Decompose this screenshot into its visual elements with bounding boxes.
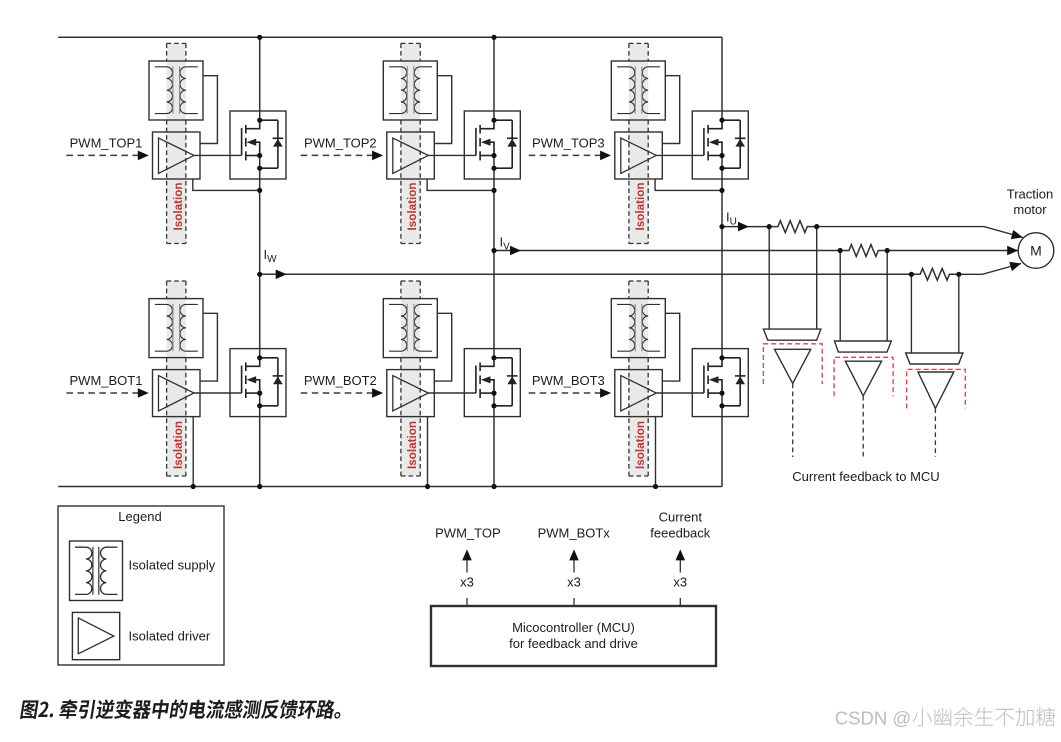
isolation barrier channel (TOP2) [401, 43, 420, 243]
wire IW to motor [959, 262, 1021, 274]
junction dots: leg 1 MOSFET top [257, 118, 262, 171]
phase current wire IW to shunt [260, 270, 912, 280]
label Isolated supply [129, 558, 216, 573]
power MOSFET switch (BOT2) [464, 349, 520, 417]
PWM input dashed arrow (TOP1) [66, 151, 148, 161]
junction dots: leg 3 MOSFET top [719, 118, 724, 171]
wire IU to motor [817, 227, 1023, 240]
label Isolation (TOP3) [634, 182, 647, 230]
svg-text:PWM_TOP3: PWM_TOP3 [532, 136, 605, 151]
isolation boundary (red dashed) around A2 [834, 357, 893, 396]
label PWM_TOP2 [304, 136, 377, 151]
label x3 (1) [460, 575, 474, 590]
wire: supply output to driver (TOP2) [434, 76, 451, 144]
wire: supply output to driver (BOT1) [200, 313, 217, 381]
sense wires into isolated amplifier A1 [769, 227, 817, 330]
junction dots: leg 1 MOSFET bottom [257, 355, 262, 408]
isolated amplifier A1 input stage (trapezoid) [763, 329, 821, 340]
wire: driver output to MOSFET gate (BOT3) [656, 392, 704, 394]
junction dots: leg 2 MOSFET top [491, 118, 496, 171]
isolated amplifier A2 input stage (trapezoid) [835, 341, 892, 352]
label PWM_BOTx (MCU) [538, 525, 611, 540]
watermark user id [913, 707, 1055, 726]
junction dots: top bus [257, 35, 497, 40]
junction dot: phase node leg 2 [491, 188, 496, 193]
label IV [500, 235, 511, 253]
label Current feedback to MCU [792, 469, 939, 484]
body diode of MOSFET (BOT3) [722, 358, 746, 406]
bottom DC bus wire [58, 486, 722, 488]
isolated supply transformer (BOT2) [383, 299, 437, 358]
isolated supply transformer (BOT3) [611, 299, 665, 358]
isolation barrier channel (BOT2) [401, 281, 420, 476]
wire: driver output to MOSFET gate (BOT1) [194, 392, 242, 394]
svg-text:Isolation: Isolation [634, 182, 647, 230]
figure caption 图2. caption text [20, 699, 343, 719]
junction dots: bottom bus [191, 484, 659, 489]
label Isolation (BOT3) [634, 421, 647, 469]
shunt resistor R2 [840, 245, 887, 257]
power MOSFET switch (BOT1) [230, 349, 286, 417]
phase current wire IV to shunt [494, 246, 840, 256]
legend isolated supply symbol [70, 541, 123, 601]
isolation barrier channel (BOT3) [629, 281, 648, 476]
label PWM_BOT3 [532, 373, 605, 388]
label IU [726, 210, 737, 228]
watermark CSDN [835, 707, 911, 728]
isolated supply transformer (TOP2) [383, 61, 437, 120]
svg-text:Micocontroller (MCU): Micocontroller (MCU) [512, 620, 635, 635]
svg-text:PWM_TOP: PWM_TOP [435, 525, 501, 540]
wire: supply output to driver (BOT3) [662, 313, 679, 381]
isolated gate driver (BOT3) [615, 370, 663, 417]
shunt resistor R1 [769, 221, 817, 233]
label Isolation (BOT1) [172, 421, 185, 469]
MCU signal arrow 1 (x3) [462, 549, 472, 606]
isolated amplifier A2 output stage (triangle) [845, 361, 881, 396]
label Isolation (TOP1) [172, 182, 185, 230]
PWM input dashed arrow (TOP2) [301, 151, 383, 161]
svg-text:M: M [1030, 243, 1042, 259]
wire: driver output to MOSFET gate (TOP1) [194, 154, 242, 156]
svg-text:PWM_BOT1: PWM_BOT1 [70, 373, 143, 388]
wire: driver return to phase node (TOP3) [655, 179, 722, 190]
wire: driver output to MOSFET gate (TOP3) [656, 154, 704, 156]
wire: driver return to negative bus (BOT3) [655, 417, 657, 487]
power MOSFET switch (TOP1) [230, 111, 286, 179]
isolation barrier channel (TOP3) [629, 43, 648, 243]
label PWM_BOT2 [304, 373, 377, 388]
body diode of MOSFET (TOP2) [494, 120, 518, 168]
label Isolation (BOT2) [406, 421, 419, 469]
label PWM_BOT1 [70, 373, 143, 388]
shunt resistor R3 [911, 268, 958, 280]
label Isolated driver [129, 629, 211, 644]
PWM input dashed arrow (TOP3) [529, 151, 611, 161]
label x3 (2) [567, 575, 581, 590]
junction dots: leg 3 MOSFET bottom [719, 355, 724, 408]
svg-text:x3: x3 [567, 575, 581, 590]
wire: supply output to driver (TOP1) [200, 76, 217, 144]
wire: driver output to MOSFET gate (TOP2) [428, 154, 476, 156]
PWM input dashed arrow (BOT1) [66, 388, 148, 398]
svg-text:Isolation: Isolation [406, 182, 419, 230]
wire: driver return to phase node (TOP2) [427, 179, 494, 190]
isolated amplifier A3 output stage (triangle) [918, 372, 954, 408]
phase leg 1 vertical wire segments [259, 37, 261, 486]
dashed output of A3 to MCU [934, 408, 936, 457]
svg-text:x3: x3 [460, 575, 474, 590]
isolation boundary (red dashed) around A1 [763, 344, 822, 384]
label IW [264, 247, 278, 265]
svg-text:CSDN @: CSDN @ [835, 707, 911, 728]
svg-text:Isolation: Isolation [172, 421, 185, 469]
body diode of MOSFET (BOT1) [260, 358, 284, 406]
legend box [58, 506, 224, 665]
svg-text:Legend: Legend [118, 509, 161, 524]
label Isolation (TOP2) [406, 182, 419, 230]
junction dots: shunt terminals [767, 224, 962, 277]
power MOSFET switch (BOT3) [692, 349, 748, 417]
junction dots: leg 2 MOSFET bottom [491, 355, 496, 408]
wire: driver return to negative bus (BOT1) [192, 417, 194, 487]
svg-text:PWM_BOTx: PWM_BOTx [538, 525, 611, 540]
wire: driver return to negative bus (BOT2) [427, 417, 429, 487]
isolated amplifier A3 input stage (trapezoid) [906, 353, 963, 364]
svg-text:Isolated driver: Isolated driver [129, 629, 211, 644]
isolated gate driver (BOT2) [387, 370, 435, 417]
isolated gate driver (TOP2) [387, 132, 435, 179]
svg-text:Isolated supply: Isolated supply [129, 558, 216, 573]
svg-text:x3: x3 [673, 575, 687, 590]
svg-text:PWM_TOP1: PWM_TOP1 [70, 136, 143, 151]
svg-text:PWM_TOP2: PWM_TOP2 [304, 136, 377, 151]
isolated gate driver (BOT1) [153, 370, 201, 417]
body diode of MOSFET (TOP3) [722, 120, 746, 168]
label PWM_TOP3 [532, 136, 605, 151]
svg-text:PWM_BOT2: PWM_BOT2 [304, 373, 377, 388]
power MOSFET switch (TOP2) [464, 111, 520, 179]
junction dot: phase node leg 1 [257, 188, 262, 193]
junction dot: phase node leg 3 [719, 188, 724, 193]
phase leg 3 vertical wire segments [721, 37, 723, 486]
label Microcontroller text [509, 620, 638, 651]
label PWM_TOP (MCU) [435, 525, 501, 540]
MCU signal arrow 2 (x3) [569, 549, 579, 606]
label Current feeedback (MCU) [650, 510, 710, 541]
svg-text:Isolation: Isolation [634, 421, 647, 469]
isolation boundary (red dashed) around A3 [907, 369, 966, 408]
dashed output of A1 to MCU [792, 384, 794, 458]
svg-text:Current: Current [659, 510, 703, 525]
phase leg 2 vertical wire segments [493, 37, 495, 486]
legend isolated driver symbol [72, 612, 119, 659]
MCU signal arrow 3 (x3) [676, 549, 686, 606]
isolated gate driver (TOP3) [615, 132, 663, 179]
junction dots: current taps [257, 224, 725, 277]
top DC bus wire [58, 36, 722, 38]
wire IV to motor [887, 246, 1018, 256]
svg-text:Isolation: Isolation [406, 421, 419, 469]
microcontroller MCU box [431, 606, 716, 666]
PWM input dashed arrow (BOT2) [301, 388, 383, 398]
power MOSFET switch (TOP3) [692, 111, 748, 179]
wire: supply output to driver (TOP3) [662, 76, 679, 144]
isolation barrier channel (BOT1) [167, 281, 186, 476]
label Legend [118, 509, 161, 524]
svg-text:Isolation: Isolation [172, 182, 185, 230]
label x3 (3) [673, 575, 687, 590]
body diode of MOSFET (TOP1) [260, 120, 284, 168]
sense wires into isolated amplifier A3 [911, 274, 958, 353]
isolated supply transformer (TOP3) [611, 61, 665, 120]
svg-text:feeedback: feeedback [650, 525, 710, 540]
dashed output of A2 to MCU [862, 396, 864, 457]
phase current wire IU to shunt [722, 222, 769, 232]
traction motor M [1018, 233, 1054, 269]
sense wires into isolated amplifier A2 [840, 251, 887, 342]
PWM input dashed arrow (BOT3) [529, 388, 611, 398]
isolated supply transformer (BOT1) [149, 299, 203, 358]
wire: supply output to driver (BOT2) [434, 313, 451, 381]
svg-text:Current feedback to MCU: Current feedback to MCU [792, 469, 939, 484]
body diode of MOSFET (BOT2) [494, 358, 518, 406]
isolated gate driver (TOP1) [153, 132, 201, 179]
isolated supply transformer (TOP1) [149, 61, 203, 120]
wire: driver output to MOSFET gate (BOT2) [428, 392, 476, 394]
svg-text:motor: motor [1013, 202, 1047, 217]
label PWM_TOP1 [70, 136, 143, 151]
label Traction motor [1007, 187, 1053, 218]
svg-text:PWM_BOT3: PWM_BOT3 [532, 373, 605, 388]
isolation barrier channel (TOP1) [167, 43, 186, 243]
wire: driver return to phase node (TOP1) [193, 179, 260, 190]
isolated amplifier A1 output stage (triangle) [775, 349, 811, 383]
svg-text:Traction: Traction [1007, 187, 1053, 202]
svg-text:for feedback and drive: for feedback and drive [509, 636, 638, 651]
